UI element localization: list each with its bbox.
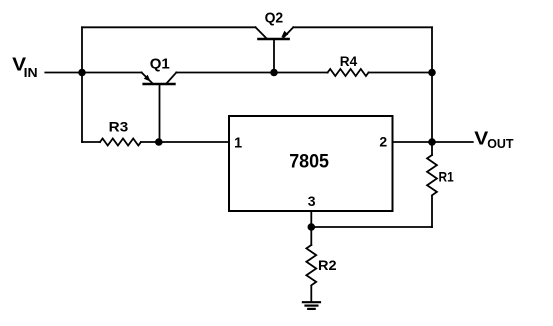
svg-text:7805: 7805: [289, 151, 329, 173]
wire R3 to 7805 pin 1: [141, 141, 229, 143]
svg-text:V: V: [474, 128, 488, 148]
wire right bus to R1: [431, 142, 433, 155]
svg-text:1: 1: [234, 135, 242, 151]
svg-text:R1: R1: [439, 169, 454, 185]
svg-text:OUT: OUT: [487, 137, 514, 151]
svg-text:IN: IN: [24, 66, 38, 80]
resistor R2: [306, 245, 316, 285]
node at V_IN / left bus: [78, 69, 86, 77]
svg-text:Q1: Q1: [150, 55, 170, 72]
ground: [303, 302, 320, 309]
wire R3 row from left bus: [82, 141, 100, 143]
svg-text:R3: R3: [109, 120, 129, 135]
wire V_IN horizontal to Q1 emitter: [45, 72, 141, 74]
resistor R3: [100, 139, 141, 146]
wire left vertical bus: [81, 27, 83, 142]
transistor Q2: [256, 27, 294, 72]
wire R2 bottom to ground: [310, 286, 312, 301]
wire top run left (to Q2 collector): [82, 26, 256, 28]
wire bottom run to pin3 node: [311, 226, 432, 228]
svg-text:2: 2: [379, 133, 387, 149]
wire Q1 collector to R4: [176, 72, 327, 74]
node at right bus / R4: [428, 69, 436, 77]
svg-text:R2: R2: [318, 257, 337, 273]
op box: 7805 regulator U1: [229, 116, 393, 211]
resistor R4: [328, 69, 369, 76]
wire R1 bottom to corner: [431, 196, 433, 227]
resistor R1: [427, 155, 437, 195]
node at pin3 / bottom wire: [308, 223, 316, 231]
node at Q1 base / R3: [155, 138, 163, 146]
svg-text:Q2: Q2: [265, 10, 284, 27]
node at Q2 base / R4 row: [270, 69, 278, 77]
wire 7805 pin 2 to V_OUT: [393, 141, 473, 143]
wire top run right (Q2 emitter to right bus): [293, 26, 432, 28]
node at V_OUT: [428, 138, 436, 146]
wire right vertical bus: [431, 27, 433, 142]
svg-text:R4: R4: [340, 54, 358, 69]
transistor Q1: [142, 73, 177, 143]
wire 7805 pin 3 down: [310, 211, 312, 245]
svg-text:3: 3: [308, 193, 316, 209]
wire R4 to right bus: [369, 72, 432, 74]
